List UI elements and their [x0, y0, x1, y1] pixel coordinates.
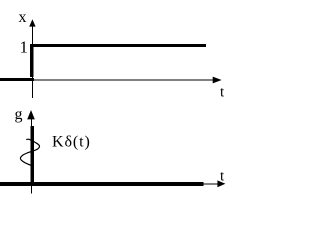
svg-text:Kδ(t): Kδ(t) — [52, 134, 91, 151]
svg-text:t: t — [220, 85, 225, 101]
svg-text:t: t — [220, 169, 225, 185]
svg-text:x: x — [19, 9, 27, 26]
svg-text:1: 1 — [20, 38, 29, 57]
svg-text:g: g — [15, 106, 23, 123]
